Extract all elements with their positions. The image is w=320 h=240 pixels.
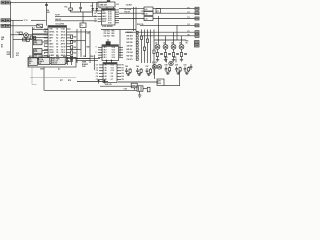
crystal X1 box bbox=[80, 23, 86, 28]
svg-text:SFE: SFE bbox=[34, 51, 37, 53]
U4 right pin 7 bbox=[111, 64, 124, 66]
capacitor/resistor label R47 bbox=[127, 55, 139, 58]
connector P7 bbox=[195, 41, 200, 44]
U3 left pin 1 bbox=[98, 47, 108, 49]
U3 right pin 9 bbox=[112, 55, 123, 57]
svg-text:R62: R62 bbox=[112, 36, 115, 38]
wire Q4 emitter bbox=[173, 49, 175, 52]
diode D1 bbox=[91, 2, 94, 16]
wire rail V3 bbox=[147, 30, 149, 64]
U1 pin row 7 bbox=[44, 46, 71, 48]
wire Q2 emitter bbox=[157, 49, 159, 52]
filter CF3 bbox=[34, 54, 43, 59]
svg-text:R23: R23 bbox=[73, 52, 76, 54]
wire U3 feedback vertical bbox=[119, 30, 121, 58]
fuse F1 bbox=[147, 87, 150, 92]
svg-text:C97: C97 bbox=[146, 66, 149, 68]
transistor Q7 bbox=[152, 65, 157, 70]
connector CN1 pin 2 bbox=[6, 1, 11, 4]
U1 pin row 5 bbox=[44, 39, 71, 42]
svg-text:O7: O7 bbox=[56, 49, 58, 51]
wire sub-board out b bbox=[76, 59, 98, 61]
svg-text:B 11: B 11 bbox=[108, 20, 111, 22]
svg-text:R20: R20 bbox=[73, 36, 76, 38]
svg-text:P2: P2 bbox=[188, 12, 190, 14]
svg-text:B 16: B 16 bbox=[108, 9, 111, 11]
wire to connector P4 bbox=[140, 24, 195, 26]
connector CN2 pin 1 bbox=[1, 19, 5, 22]
resistor R9 bbox=[30, 36, 33, 39]
diode D21 above U4 bbox=[105, 60, 107, 63]
svg-text:B 10: B 10 bbox=[108, 22, 111, 24]
svg-text:R0: R0 bbox=[122, 64, 124, 66]
U1 pin row 12 bbox=[44, 60, 71, 63]
inductor L23 inline bbox=[144, 17, 153, 21]
ground cluster 99 bbox=[177, 72, 181, 74]
diode D22 above U4 bbox=[110, 60, 112, 63]
electrolytic C112 bottom bbox=[137, 86, 143, 98]
wire IF line b bbox=[55, 20, 97, 22]
U3 right pin 6 bbox=[112, 46, 123, 49]
transistor Q9 bbox=[169, 61, 173, 65]
svg-text:TP10: TP10 bbox=[24, 20, 28, 22]
svg-text:C35 R31: C35 R31 bbox=[126, 4, 132, 6]
capacitor C96 bbox=[136, 68, 139, 74]
wire to connector P2 bbox=[119, 12, 195, 14]
svg-text:C99: C99 bbox=[175, 65, 178, 67]
svg-text:9 CHR: 9 CHR bbox=[49, 52, 55, 54]
svg-text:SY 23: SY 23 bbox=[61, 32, 65, 34]
wire to U1 pin row a bbox=[32, 29, 48, 31]
connector P5 bbox=[195, 31, 199, 34]
svg-text:L23: L23 bbox=[145, 19, 148, 21]
U1 pin row 10 bbox=[44, 55, 71, 57]
svg-text:C15: C15 bbox=[16, 53, 19, 55]
ground cluster 96 bbox=[138, 74, 142, 76]
svg-text:G 12: G 12 bbox=[112, 52, 116, 54]
resistor R21 bbox=[71, 40, 77, 43]
delay line DL1 bbox=[106, 39, 110, 45]
svg-text:G 11: G 11 bbox=[112, 55, 115, 57]
svg-text:C3: C3 bbox=[94, 16, 96, 18]
transistor Q2 bbox=[155, 43, 160, 50]
svg-text:G 10: G 10 bbox=[112, 57, 116, 59]
wire Q7 down bbox=[154, 69, 156, 79]
wire rail right of U1 c bbox=[85, 29, 87, 57]
resistor RE5 bbox=[180, 53, 182, 57]
label row under U2 3 bbox=[104, 35, 115, 38]
resistor RE4 bbox=[172, 53, 174, 57]
transistor Q3 bbox=[163, 43, 168, 50]
svg-text:L21: L21 bbox=[145, 9, 148, 11]
resistor R98 bbox=[169, 67, 171, 73]
ground cluster 93 bbox=[185, 72, 189, 74]
svg-text:O 8: O 8 bbox=[111, 76, 114, 78]
wire SF1 to U2 b bbox=[106, 7, 108, 9]
connector P3 bbox=[195, 17, 199, 20]
resistor R51 bbox=[140, 36, 142, 39]
svg-text:R3: R3 bbox=[122, 73, 124, 75]
resistor R11 bbox=[65, 2, 73, 12]
filter CF2 bbox=[34, 49, 43, 54]
U2 right pin 15 bbox=[108, 22, 119, 24]
wire bus y77 bbox=[30, 77, 76, 79]
sub-board outline bbox=[28, 58, 76, 68]
label AV in bbox=[1, 43, 4, 48]
svg-text:2 SYNC: 2 SYNC bbox=[49, 32, 56, 34]
wire sub-board leg B bbox=[43, 67, 45, 90]
wire from CN2 bbox=[10, 19, 23, 21]
U3 left pin 2 bbox=[98, 49, 108, 51]
capacitor C33 top bbox=[107, 0, 110, 2]
resistor R20 bbox=[71, 35, 77, 38]
svg-text:C1: C1 bbox=[94, 10, 96, 12]
svg-text:C96: C96 bbox=[136, 66, 139, 68]
svg-text:5 IF: 5 IF bbox=[49, 40, 52, 42]
filter CF4 bbox=[34, 59, 43, 64]
connector CN9 bbox=[157, 79, 164, 86]
svg-text:R12: R12 bbox=[33, 38, 36, 40]
svg-text:L21: L21 bbox=[116, 4, 119, 6]
svg-text:D1: D1 bbox=[91, 6, 93, 8]
U2 right pin 14 bbox=[108, 20, 119, 22]
U1 pin row 4 bbox=[44, 37, 71, 40]
capacitor C100 bbox=[190, 64, 193, 70]
wire CF4 to U1 bbox=[42, 60, 48, 62]
svg-text:L22: L22 bbox=[145, 14, 148, 16]
svg-text:R2: R2 bbox=[122, 70, 124, 72]
svg-text:OS 17: OS 17 bbox=[61, 49, 66, 51]
diode D11 bbox=[97, 79, 99, 84]
resistor R95 bbox=[129, 68, 131, 74]
svg-text:R5: R5 bbox=[122, 79, 124, 81]
capacitor CE3 bbox=[168, 54, 171, 55]
capacitor C98 bbox=[165, 67, 168, 73]
connector P8 bbox=[195, 44, 200, 47]
U4 right pin 12 bbox=[111, 79, 124, 81]
wire rail V3b bbox=[150, 30, 152, 64]
U2 right pin 12 bbox=[108, 16, 119, 18]
wire C110 down bbox=[134, 88, 136, 91]
wire U1 pin to rail b bbox=[71, 40, 86, 42]
connector CN4 label bbox=[1, 36, 5, 41]
transistor Q5 bbox=[179, 43, 184, 50]
filter CF1 bbox=[34, 40, 43, 45]
svg-text:C2: C2 bbox=[96, 70, 98, 72]
svg-text:C3: C3 bbox=[96, 73, 98, 75]
capacitor/resistor label R45 bbox=[127, 48, 139, 51]
U4 left pin 2 bbox=[96, 67, 107, 69]
svg-text:P5: P5 bbox=[188, 31, 190, 33]
wire bottom right bus bbox=[118, 81, 158, 83]
svg-text:IF 20: IF 20 bbox=[61, 40, 65, 42]
electrolytic C110 bbox=[131, 83, 137, 88]
resistor R53 bbox=[146, 39, 148, 42]
U2 left pin 3 bbox=[94, 15, 107, 18]
svg-text:SW1 PWR: SW1 PWR bbox=[52, 59, 60, 61]
wire U1 pin to rail d bbox=[71, 57, 91, 59]
svg-text:P6: P6 bbox=[188, 34, 190, 36]
svg-text:CN9: CN9 bbox=[158, 81, 161, 83]
svg-text:O 9: O 9 bbox=[111, 73, 114, 75]
svg-text:G 13: G 13 bbox=[112, 49, 116, 51]
U1 pin row 8 bbox=[44, 49, 71, 51]
connector P1 bbox=[195, 7, 199, 10]
label row under U2 1 bbox=[104, 30, 115, 33]
U4 right pin 9 bbox=[111, 70, 124, 72]
transistor Q4 bbox=[171, 42, 176, 50]
U2 left pin 4 bbox=[94, 18, 107, 21]
wire Q5 emitter bbox=[181, 49, 183, 52]
connector CN3 pin 2 bbox=[6, 24, 11, 27]
svg-text:R1: R1 bbox=[122, 67, 124, 69]
svg-text:O 10: O 10 bbox=[111, 70, 115, 72]
U1 pin row 3 bbox=[44, 34, 71, 37]
U1 pin row 6 bbox=[44, 42, 71, 45]
wire rail V2 bbox=[144, 30, 146, 64]
wire vertical node to U1 bbox=[46, 2, 48, 25]
svg-text:S1: S1 bbox=[56, 32, 58, 34]
ground below Q4 bbox=[172, 57, 175, 62]
capacitor C62 bbox=[70, 57, 73, 65]
svg-text:R38 C39: R38 C39 bbox=[137, 24, 143, 26]
svg-text:B 13: B 13 bbox=[108, 16, 111, 18]
label row under U2 2 bbox=[104, 32, 115, 35]
U4 left pin 6 bbox=[96, 79, 107, 81]
wire to connector P5 bbox=[125, 31, 195, 33]
op-amp U3 chroma IC bbox=[102, 45, 119, 61]
svg-text:V6: V6 bbox=[56, 46, 58, 48]
svg-text:R60: R60 bbox=[112, 31, 115, 33]
op-amp U4 vertical deflection IC bbox=[103, 63, 117, 83]
U4 right pin 10 bbox=[111, 73, 124, 75]
wire vertical feed column b bbox=[135, 7, 137, 31]
U3 left pin 5 bbox=[98, 57, 108, 59]
wire left rail B bbox=[12, 20, 14, 58]
ground below Q3 bbox=[164, 57, 167, 62]
wire 12V line bbox=[100, 85, 137, 87]
capacitor C19 bbox=[23, 38, 26, 41]
capacitor CE5 bbox=[184, 54, 187, 55]
wire to connector P1 bbox=[119, 8, 195, 10]
wire U1 pin to rail c bbox=[71, 49, 82, 51]
U1 pin row 11 bbox=[44, 57, 71, 60]
svg-text:R81: R81 bbox=[186, 41, 189, 43]
wire ground bus long bbox=[44, 89, 137, 91]
svg-text:C5: C5 bbox=[94, 21, 96, 23]
U2 right pin 10 bbox=[108, 12, 119, 14]
wire rail V4 bbox=[153, 30, 155, 76]
svg-text:R77: R77 bbox=[60, 80, 63, 82]
wire corner to deflection bbox=[176, 25, 178, 40]
inductor L21 inline bbox=[144, 7, 153, 11]
U3 right pin 10 bbox=[112, 57, 123, 59]
wire CF3 to U1 bbox=[42, 55, 48, 57]
ground cluster 98 bbox=[166, 72, 170, 74]
svg-text:X1: X1 bbox=[81, 25, 83, 27]
ground below Q5 bbox=[180, 57, 183, 62]
wire main board vertical bbox=[93, 55, 95, 70]
op-amp U1 main IC LA7680 bbox=[48, 23, 67, 64]
wire audio line bbox=[77, 81, 108, 83]
wire U1 pin to rail a bbox=[71, 31, 91, 33]
capacitor C99 bbox=[175, 67, 178, 73]
wire SF1 to U2 c bbox=[113, 7, 115, 9]
svg-text:Q7 Q8: Q7 Q8 bbox=[152, 62, 157, 64]
resistor R7 bbox=[19, 32, 22, 34]
U2 right pin 9 bbox=[108, 9, 119, 11]
wire cluster bus bbox=[13, 38, 32, 40]
svg-text:P3: P3 bbox=[188, 17, 190, 19]
capacitor/resistor label C88 bbox=[127, 44, 139, 47]
capacitor C95 bbox=[125, 68, 128, 74]
svg-text:CF1: CF1 bbox=[34, 41, 37, 43]
U4 left pin 1 bbox=[96, 64, 107, 66]
resistor R54 bbox=[153, 50, 155, 53]
U2 left pin 1 bbox=[94, 10, 105, 12]
svg-text:CF3: CF3 bbox=[34, 55, 37, 57]
U4 left pin 4 bbox=[96, 72, 107, 75]
wire CF2 to U1 bbox=[42, 50, 48, 52]
svg-text:Q5: Q5 bbox=[179, 43, 181, 45]
svg-text:C8: C8 bbox=[56, 52, 58, 54]
wire to U1 pin row c bbox=[32, 36, 48, 38]
U1 pin row 1 bbox=[44, 28, 71, 31]
svg-text:IC5: IC5 bbox=[29, 59, 32, 61]
wire rail right of U1 a bbox=[76, 29, 78, 63]
wire IF line a bbox=[55, 15, 97, 17]
U4 right pin 8 bbox=[111, 67, 124, 69]
resistor RE3 bbox=[164, 53, 166, 57]
capacitor/resistor label R41 bbox=[127, 34, 139, 37]
svg-text:7 VCO: 7 VCO bbox=[49, 46, 55, 48]
svg-text:8: 8 bbox=[44, 53, 45, 55]
svg-text:C110: C110 bbox=[132, 86, 136, 88]
svg-text:R21: R21 bbox=[73, 42, 76, 44]
svg-text:R22: R22 bbox=[73, 47, 76, 49]
svg-text:C2: C2 bbox=[94, 13, 96, 15]
capacitor C101 bbox=[164, 57, 168, 63]
resistor R22 bbox=[71, 46, 77, 49]
capacitor/resistor label C90 bbox=[127, 51, 139, 54]
connector P6 bbox=[195, 34, 199, 37]
svg-text:R78: R78 bbox=[68, 80, 71, 82]
wire sub-board out bbox=[76, 58, 100, 60]
capacitor CE2 bbox=[160, 54, 163, 55]
svg-text:VC 18: VC 18 bbox=[61, 46, 66, 48]
wire bus above transistor row bbox=[154, 39, 186, 41]
svg-text:O 11: O 11 bbox=[111, 67, 114, 69]
svg-text:C101: C101 bbox=[164, 57, 168, 59]
wire rail right of U1 b bbox=[80, 29, 82, 57]
connector CN3 pin 1 bbox=[1, 24, 5, 27]
svg-text:C1: C1 bbox=[96, 67, 98, 69]
svg-text:C98: C98 bbox=[165, 65, 168, 67]
wire under U2 bbox=[101, 29, 136, 31]
svg-text:B 12: B 12 bbox=[108, 18, 111, 20]
U4 left pin 5 bbox=[96, 75, 107, 78]
svg-text:VOL CH: VOL CH bbox=[52, 61, 59, 63]
wire CN9 vertical bbox=[179, 71, 181, 86]
U1 pin row 2 bbox=[44, 32, 71, 34]
svg-text:R95: R95 bbox=[174, 57, 177, 59]
connector CN2 pin 2 bbox=[6, 19, 11, 22]
wire X1 horiz bbox=[71, 11, 93, 13]
ground below Q2 bbox=[156, 57, 159, 62]
resistor R10 bbox=[33, 37, 35, 40]
wire to connector P3 bbox=[119, 18, 195, 20]
inductor L71 bbox=[156, 9, 161, 14]
wire left rail A bbox=[10, 2, 12, 58]
svg-text:Q3: Q3 bbox=[163, 43, 165, 45]
U3 right pin 8 bbox=[112, 52, 123, 54]
svg-text:L71: L71 bbox=[156, 11, 159, 13]
resistor R24 bbox=[71, 56, 77, 59]
svg-text:B 15: B 15 bbox=[108, 12, 111, 14]
capacitor C61 bbox=[66, 57, 69, 65]
capacitor/resistor label R43 bbox=[127, 41, 139, 44]
svg-text:O 12: O 12 bbox=[111, 64, 115, 66]
U3 left pin 3 bbox=[98, 52, 108, 54]
svg-text:R71: R71 bbox=[142, 11, 145, 13]
connector P4 bbox=[195, 24, 199, 27]
diode D12 bbox=[103, 79, 105, 84]
wire filter rail bbox=[31, 27, 33, 64]
svg-text:L1: L1 bbox=[33, 28, 35, 30]
svg-text:CH 16: CH 16 bbox=[61, 52, 66, 54]
ground cluster 95 bbox=[127, 74, 131, 76]
wire Q5 base feed bbox=[181, 36, 183, 44]
svg-text:5OUT: 5OUT bbox=[102, 21, 106, 23]
resistor R96 bbox=[140, 68, 142, 74]
resistor R52 bbox=[143, 47, 145, 50]
connector CN1 pin 1 bbox=[1, 1, 5, 4]
wire SF1 to U2 a bbox=[99, 7, 101, 9]
wire rail V1 bbox=[141, 30, 143, 64]
inductor L22 inline bbox=[144, 12, 153, 16]
resistor R93 bbox=[188, 67, 190, 73]
wire CF1 to U1 bbox=[42, 41, 48, 43]
wire rail right of U1 d bbox=[89, 31, 91, 63]
U4 left pin 3 bbox=[96, 70, 107, 72]
op-amp U2 IF IC bbox=[102, 9, 116, 26]
U2 right pin 13 bbox=[108, 18, 119, 20]
capacitor/resistor label C84 bbox=[127, 31, 139, 34]
svg-text:CF2: CF2 bbox=[34, 49, 37, 51]
U2 left pin 2 bbox=[94, 13, 107, 15]
svg-text:V0: V0 bbox=[56, 29, 58, 31]
svg-text:R56: R56 bbox=[91, 56, 94, 58]
diode D2 bbox=[96, 2, 99, 12]
wire top bus bbox=[10, 1, 107, 3]
wire vertical feed column a bbox=[133, 7, 135, 31]
ground cluster 97 bbox=[147, 74, 151, 76]
transistor Q1 bbox=[24, 33, 29, 38]
regulator U5 bbox=[28, 58, 37, 65]
wire Q4 base feed bbox=[173, 32, 175, 44]
capacitor C3 on vertical bbox=[45, 4, 48, 5]
capacitor C97 bbox=[146, 68, 149, 74]
svg-text:C18: C18 bbox=[16, 32, 19, 34]
U4 right pin 11 bbox=[111, 75, 124, 78]
capacitor CE4 bbox=[176, 54, 179, 55]
svg-text:C0: C0 bbox=[96, 64, 98, 66]
capacitor C102 bbox=[174, 57, 177, 63]
resistor R5 bbox=[37, 24, 43, 28]
resistor R99 bbox=[179, 67, 181, 73]
U2 left pin 5 bbox=[94, 21, 106, 23]
wire sub-board leg A bbox=[32, 67, 37, 85]
